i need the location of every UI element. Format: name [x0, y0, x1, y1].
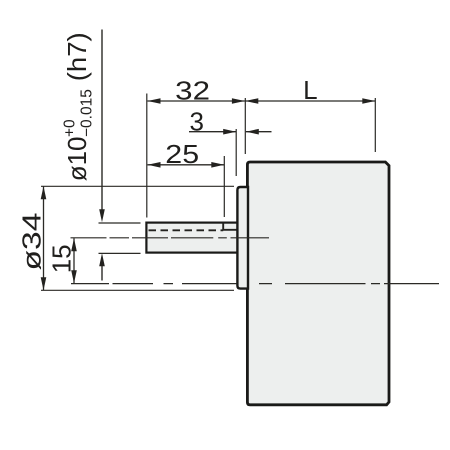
- shaft: [146, 223, 238, 253]
- dim 32 extension right: [244, 98, 246, 154]
- dim 3 right tail: [246, 131, 272, 133]
- svg-text:25: 25: [165, 139, 199, 169]
- dim 15 line: [73, 238, 75, 283]
- svg-text:15: 15: [47, 244, 77, 273]
- svg-text:(h7): (h7): [62, 32, 92, 81]
- dim phi10 extension bottom: [99, 252, 141, 254]
- shaft flat hidden line: [149, 229, 224, 231]
- dim 32 line: [148, 100, 245, 102]
- svg-text:32: 32: [175, 75, 210, 105]
- shaft flat step: [223, 223, 237, 230]
- body centerline: [71, 283, 439, 285]
- svg-text:L: L: [303, 75, 317, 105]
- dim 32 extension left: [146, 94, 148, 218]
- svg-text:+0: +0: [62, 119, 79, 137]
- dim phi10 leader line: [101, 30, 103, 214]
- svg-text:3: 3: [189, 107, 203, 137]
- dim phi10 text: [62, 32, 96, 181]
- dim L extension right: [374, 98, 376, 152]
- dim phi34 extension bottom: [41, 289, 234, 291]
- dim phi10 lower arrow: [101, 262, 103, 281]
- svg-text:ø10: ø10: [62, 136, 92, 181]
- dim 25 extension right: [223, 156, 225, 217]
- dim phi10 extension top: [99, 222, 141, 224]
- dim 25 line: [148, 164, 225, 166]
- dim L line: [245, 100, 375, 102]
- motor body: [247, 162, 389, 405]
- dim 3 extension: [235, 129, 237, 176]
- dim phi34 extension top: [41, 185, 234, 187]
- dim phi34 line: [43, 186, 45, 290]
- svg-text:−0.015: −0.015: [78, 89, 95, 137]
- shaft centerline: [71, 237, 270, 239]
- svg-text:ø34: ø34: [17, 213, 47, 271]
- flange: [237, 187, 248, 289]
- dim 3 left tail: [189, 131, 236, 133]
